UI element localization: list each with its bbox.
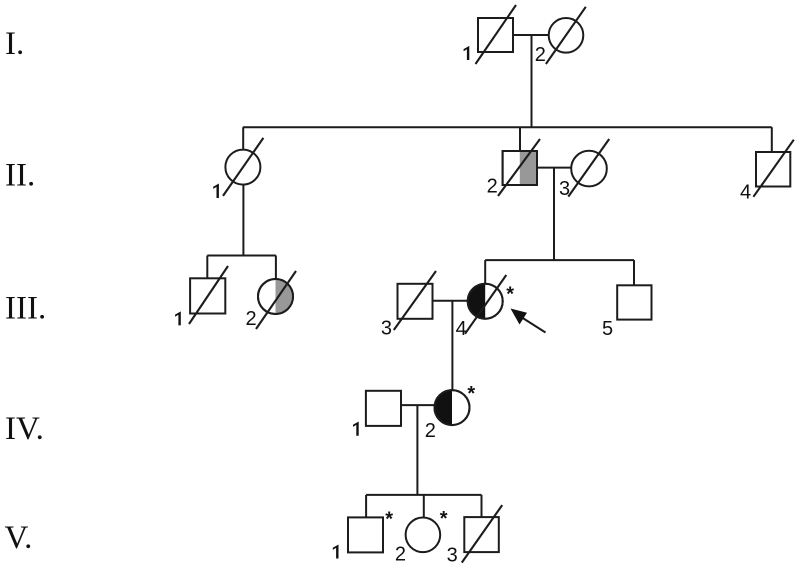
svg-text:I.: I. [5, 26, 24, 62]
svg-text:II.: II. [5, 158, 35, 194]
svg-text:5: 5 [602, 318, 613, 340]
svg-text:2: 2 [246, 308, 257, 330]
svg-text:2: 2 [487, 176, 498, 198]
svg-text:4: 4 [740, 181, 751, 203]
svg-text:4: 4 [456, 318, 467, 340]
svg-text:3: 3 [559, 178, 570, 200]
svg-text:2: 2 [425, 420, 436, 442]
svg-text:*: * [506, 283, 514, 305]
svg-text:*: * [440, 508, 448, 530]
svg-text:*: * [467, 383, 475, 405]
svg-text:3: 3 [381, 317, 392, 339]
svg-text:*: * [385, 509, 393, 531]
svg-text:V.: V. [5, 520, 33, 556]
svg-text:IV.: IV. [5, 411, 44, 447]
svg-text:2: 2 [535, 44, 546, 66]
svg-text:2: 2 [395, 543, 406, 565]
svg-text:III.: III. [5, 291, 46, 327]
svg-text:3: 3 [447, 545, 458, 567]
